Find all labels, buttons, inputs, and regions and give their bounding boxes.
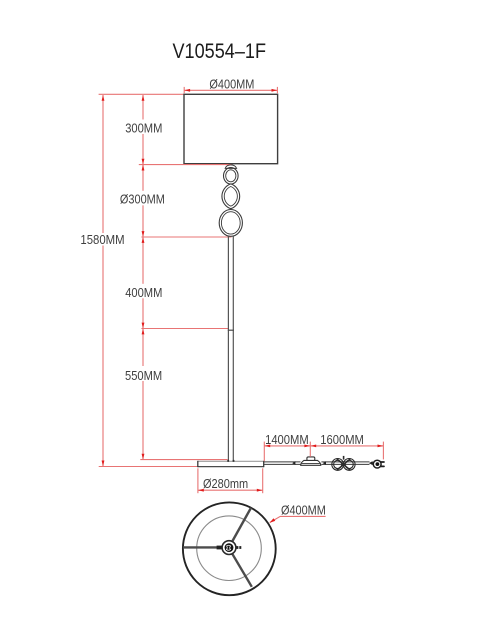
arrows 280mm [198,489,262,492]
svg-text:Ø400MM: Ø400MM [209,77,254,92]
label 1580MM [80,232,124,247]
cord ferrule 1 [292,461,295,465]
label D400MM bottom [281,502,326,517]
leader for bottom D400MM [270,516,326,522]
white gaps behind labels [79,120,167,382]
spoke upper right [232,508,251,542]
leader arrow [270,518,276,522]
stem (double line) [228,236,233,460]
extension line at base top y=459.6 [140,459,227,461]
svg-text:1600MM: 1600MM [320,432,364,447]
base diameter 280mm dimension [198,468,263,493]
dimension line segments (vertical, second) [142,95,144,459]
title V10554-1F [173,39,267,63]
finial cap under shade [225,165,236,169]
svg-text:Ø300MM: Ø300MM [120,192,165,207]
arrows for top dimension [184,89,277,92]
base top view inner circle [197,516,262,581]
plug [373,460,384,468]
base (side view) [197,460,264,467]
cord ferrule 2 [323,461,326,465]
lamp shade (side view) [184,94,278,163]
spoke left [183,546,222,548]
svg-text:400MM: 400MM [125,285,162,300]
hub right stub dashes [236,546,241,549]
cord dimension lines 1400MM / 1600MM [264,442,383,462]
extension line at shade top y=94.3 [99,93,184,95]
arrows on vertical dim lines [102,95,145,466]
dimension line 1580MM (vertical, left) [102,95,104,466]
label 1600MM [320,432,364,447]
decorative ring 3 (large) [219,210,242,237]
label D280mm [203,476,248,491]
extension line at base bottom y=466.5 [99,466,198,468]
cable coil [332,456,355,470]
spoke lower right [232,554,252,587]
label 1400MM [265,432,309,447]
svg-text:V10554–1F: V10554–1F [173,39,267,63]
label 400MM [125,285,162,300]
svg-text:550MM: 550MM [125,368,162,383]
hub left stub [217,546,223,550]
label 300MM [125,120,162,135]
svg-text:300MM: 300MM [125,120,162,135]
svg-text:1580MM: 1580MM [80,232,124,247]
extension line at junction y=237 [141,236,231,238]
decorative ring 1 (small) [224,168,239,184]
label 550MM [125,368,162,383]
base top view outer circle [183,502,276,595]
decorative ring 2 (pointed oval) [222,184,240,209]
label D400MM top [209,77,254,92]
svg-text:Ø400MM: Ø400MM [281,502,326,517]
inline switch [301,457,321,465]
power cord [264,462,370,465]
cord ferrule 3 [369,461,373,465]
svg-text:1400MM: 1400MM [265,432,309,447]
extension line at shade bottom y=164.6 [139,164,232,166]
label D300MM [120,192,165,207]
stem joint tick [228,329,234,331]
svg-text:Ø280mm: Ø280mm [203,476,248,491]
diameter 400MM top dimension [184,87,277,93]
arrows cord dimension [265,445,384,448]
hub [222,541,236,555]
extension line at junction y=328.5 [141,328,228,330]
